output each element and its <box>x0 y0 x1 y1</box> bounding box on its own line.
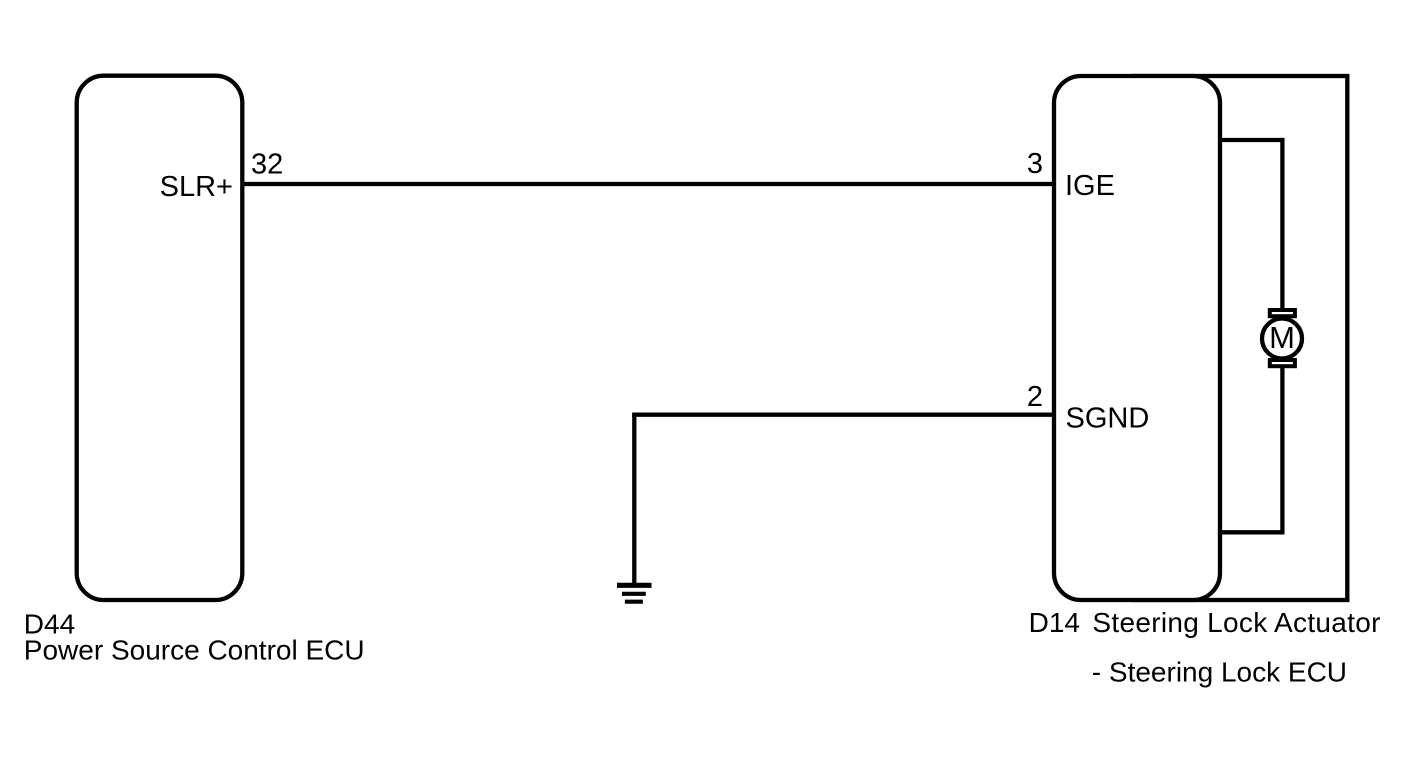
svg-text:SLR+: SLR+ <box>160 171 233 203</box>
svg-text:IGE: IGE <box>1065 170 1115 202</box>
svg-text:SGND: SGND <box>1066 402 1150 434</box>
svg-text:M: M <box>1269 320 1295 355</box>
svg-text:- Steering Lock ECU: - Steering Lock ECU <box>1092 657 1347 688</box>
svg-text:32: 32 <box>251 149 283 181</box>
svg-text:D14: D14 <box>1029 607 1080 638</box>
svg-text:2: 2 <box>1027 381 1043 413</box>
svg-text:Power Source Control ECU: Power Source Control ECU <box>24 635 365 666</box>
svg-text:Steering Lock Actuator: Steering Lock Actuator <box>1092 607 1380 638</box>
svg-text:3: 3 <box>1027 148 1043 180</box>
